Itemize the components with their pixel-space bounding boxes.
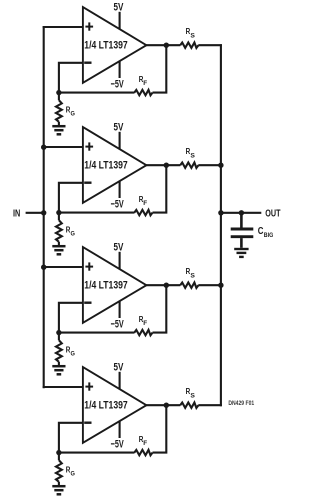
resistor RG stage 2 (56, 220, 75, 242)
wire feedback stage 3 (153, 286, 167, 332)
pin + (noninverting) U1 (85, 26, 93, 28)
wire output stage 4 (144, 404, 180, 406)
svg-text:G: G (71, 110, 75, 117)
resistor RS stage 4 (180, 386, 198, 408)
resistor RS stage 3 (180, 266, 198, 288)
resistor RS stage 1 (180, 26, 198, 48)
resistor RG stage 3 (56, 340, 75, 362)
svg-text:F: F (143, 440, 147, 447)
wire RS to output bus stage 3 (198, 284, 222, 286)
wire RF to inverting node stage 1 (58, 92, 135, 94)
wire noninverting input stage 2 (43, 146, 84, 148)
op-amp U2 1/4 LT1397 (83, 127, 146, 203)
node output bus OUT tap (218, 210, 223, 215)
ground stage 1 (52, 126, 65, 134)
wire RG lead stage 4 (58, 453, 60, 461)
resistor RF stage 4 (134, 434, 152, 455)
wire inverting input stage 4 (59, 423, 84, 453)
svg-text:1/4 LT1397: 1/4 LT1397 (84, 160, 127, 172)
input bus wire (43, 26, 45, 388)
node output stage 3 (164, 283, 169, 288)
svg-text:5V: 5V (114, 361, 124, 373)
−5V supply stage 2 (111, 181, 124, 211)
ground stage 4 (52, 486, 65, 494)
5V supply stage 1 (114, 1, 124, 29)
op-amp U4 1/4 LT1397 (83, 367, 146, 443)
node inverting/RG junction stage 3 (56, 330, 61, 335)
resistor RG stage 4 (56, 460, 75, 482)
wire RG to ground stage 1 (58, 122, 60, 125)
svg-text:5V: 5V (114, 121, 124, 133)
wire inverting input stage 3 (59, 303, 84, 333)
wire feedback stage 2 (153, 166, 167, 212)
pin + (noninverting) U3 (85, 266, 93, 268)
resistor RF stage 3 (134, 314, 152, 335)
wire RG lead stage 3 (58, 333, 60, 341)
svg-text:IN: IN (13, 208, 20, 219)
pin − (inverting) U4 (84, 422, 91, 424)
resistor RG stage 1 (56, 100, 75, 122)
node inverting/RG junction stage 4 (56, 450, 61, 455)
wire noninverting input stage 1 (43, 26, 84, 28)
svg-text:OUT: OUT (265, 209, 281, 220)
pin + (noninverting) U4 (85, 386, 93, 388)
ground stage 3 (52, 366, 65, 374)
node C_BIG tap (239, 210, 244, 215)
svg-text:S: S (190, 392, 195, 399)
capacitor C_BIG (231, 213, 274, 248)
resistor RF stage 2 (134, 194, 152, 215)
resistor RS stage 2 (180, 146, 198, 168)
wire RG to ground stage 3 (58, 362, 60, 365)
wire output stage 3 (144, 284, 180, 286)
op-amp U3 1/4 LT1397 (83, 247, 146, 323)
ground C_BIG (234, 249, 248, 257)
output bus wire (220, 44, 222, 406)
wire OUT (221, 212, 261, 214)
op-amp U1 1/4 LT1397 (83, 7, 146, 83)
wire RG to ground stage 4 (58, 482, 60, 485)
node output bus stage 2 (218, 163, 223, 168)
svg-text:S: S (190, 152, 195, 159)
wire RG to ground stage 2 (58, 242, 60, 245)
node input bus stage 3 tap (41, 265, 46, 270)
−5V supply stage 3 (111, 301, 124, 331)
wire RF to inverting node stage 4 (58, 452, 135, 454)
svg-text:DN429 F01: DN429 F01 (228, 400, 254, 407)
node output stage 2 (164, 163, 169, 168)
wire inverting input stage 2 (59, 183, 84, 213)
svg-text:S: S (190, 32, 195, 39)
wire output stage 2 (144, 164, 180, 166)
svg-text:1/4 LT1397: 1/4 LT1397 (84, 40, 127, 52)
wire noninverting input stage 4 (43, 386, 84, 388)
wire RG lead stage 2 (58, 213, 60, 221)
wire output stage 1 (144, 44, 180, 46)
node output stage 4 (164, 403, 169, 408)
svg-text:F: F (143, 200, 147, 207)
wire noninverting input stage 3 (43, 266, 84, 268)
svg-text:BIG: BIG (264, 232, 274, 239)
5V supply stage 4 (114, 361, 124, 389)
pin − (inverting) U2 (84, 181, 91, 183)
wire RF to inverting node stage 3 (58, 332, 135, 334)
pin − (inverting) U3 (84, 302, 91, 304)
5V supply stage 2 (114, 121, 124, 149)
svg-text:−5V: −5V (111, 78, 124, 90)
node output stage 1 (164, 43, 169, 48)
svg-text:F: F (143, 80, 147, 87)
svg-text:−5V: −5V (111, 438, 124, 450)
wire RG lead stage 1 (58, 93, 60, 101)
node inverting/RG junction stage 1 (56, 90, 61, 95)
wire feedback stage 4 (153, 406, 167, 452)
svg-text:1/4 LT1397: 1/4 LT1397 (84, 280, 127, 292)
svg-text:F: F (143, 320, 147, 327)
wire RS to output bus stage 1 (198, 44, 222, 46)
−5V supply stage 4 (111, 421, 124, 451)
wire RS to output bus stage 4 (198, 404, 222, 406)
wire feedback stage 1 (153, 46, 167, 92)
svg-text:5V: 5V (114, 241, 124, 253)
ground stage 2 (52, 246, 65, 254)
wire RS to output bus stage 2 (198, 164, 222, 166)
wire inverting input stage 1 (59, 63, 84, 93)
wire RF to inverting node stage 2 (58, 212, 135, 214)
resistor RF stage 1 (134, 74, 152, 95)
svg-text:S: S (190, 272, 195, 279)
svg-text:−5V: −5V (111, 198, 124, 210)
node input bus stage 2 tap (41, 145, 46, 150)
node output bus stage 3 (218, 283, 223, 288)
5V supply stage 3 (114, 241, 124, 269)
svg-text:G: G (71, 230, 75, 237)
pin − (inverting) U1 (84, 62, 91, 64)
node inverting/RG junction stage 2 (56, 210, 61, 215)
wire IN (26, 212, 45, 214)
svg-text:G: G (71, 470, 75, 477)
node IN / input bus (41, 210, 46, 215)
pin + (noninverting) U2 (85, 146, 93, 148)
svg-text:1/4 LT1397: 1/4 LT1397 (84, 400, 127, 412)
−5V supply stage 1 (111, 61, 124, 91)
svg-text:−5V: −5V (111, 318, 124, 330)
svg-text:G: G (71, 350, 75, 357)
svg-text:5V: 5V (114, 1, 124, 13)
